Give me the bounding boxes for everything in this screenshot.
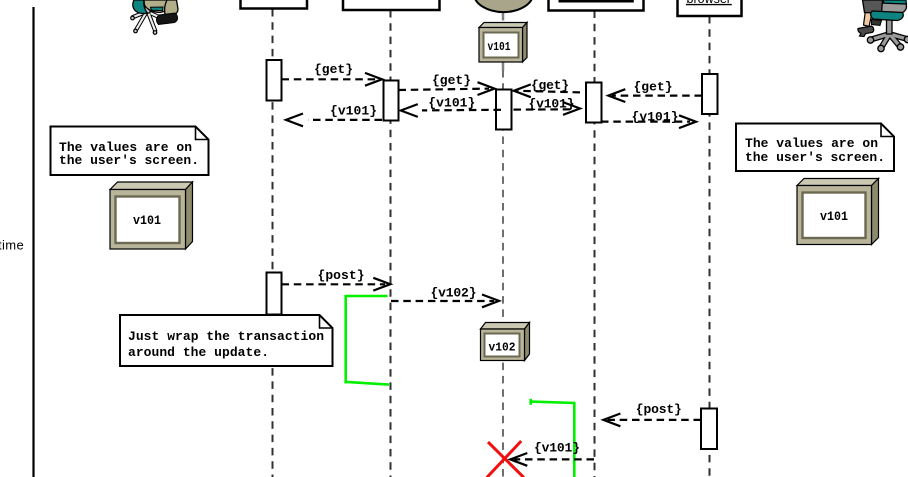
svg-text:{post}: {post} (636, 402, 682, 417)
svg-text:{get}: {get} (634, 80, 673, 95)
svg-text:v102: v102 (489, 341, 516, 355)
svg-text:{v101}: {v101} (632, 109, 679, 124)
svg-text:the user's screen.: the user's screen. (59, 153, 199, 168)
svg-text:Just wrap the transaction: Just wrap the transaction (128, 329, 324, 344)
svg-text:v101: v101 (488, 40, 511, 54)
svg-text:around the update.: around the update. (128, 345, 269, 360)
svg-text:v101: v101 (820, 210, 848, 224)
svg-text:{get}: {get} (314, 62, 353, 77)
svg-text:{get}: {get} (432, 73, 471, 88)
svg-text:time: time (0, 238, 24, 253)
svg-text:v101: v101 (133, 214, 161, 228)
svg-text:{v102}: {v102} (431, 286, 477, 301)
svg-text:{v101}: {v101} (534, 441, 580, 456)
svg-text:{v101}: {v101} (529, 97, 575, 112)
svg-text:{post}: {post} (318, 268, 365, 283)
svg-text:The values are on: The values are on (745, 136, 878, 151)
svg-text:{get}: {get} (531, 78, 569, 93)
svg-text:{v101}: {v101} (428, 95, 475, 110)
svg-text:{v101}: {v101} (330, 104, 377, 119)
svg-text:the user's screen.: the user's screen. (745, 150, 885, 165)
